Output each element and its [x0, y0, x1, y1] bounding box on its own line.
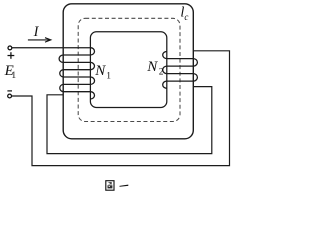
- terminal - (bottom circle): [8, 94, 12, 98]
- terminal + (top circle): [8, 46, 12, 50]
- winding N2 left-side loops: [163, 52, 167, 89]
- current arrow I: [28, 38, 51, 42]
- label +: [8, 52, 15, 59]
- winding N1 right-side loops: [90, 48, 94, 99]
- label minus: [7, 90, 12, 91]
- svg-text:2: 2: [159, 67, 164, 77]
- winding N2 crossings g1..g4: [167, 59, 194, 82]
- wire: + terminal to N1 top (h1): [12, 47, 91, 49]
- winding N2 right-side loops: [193, 59, 197, 82]
- svg-text:1: 1: [106, 71, 111, 81]
- svg-text:N: N: [94, 63, 106, 79]
- wire: N1 bottom exit, left then down then bottom run to right: [47, 87, 212, 154]
- caption 一: [119, 185, 128, 187]
- core inner window edge: [90, 32, 166, 108]
- winding N1 left-side loops: [59, 55, 63, 92]
- svg-text:1: 1: [11, 71, 16, 81]
- core outer edge: [63, 4, 193, 139]
- winding N1 crossings h2..h7: [63, 55, 90, 92]
- svg-text:I: I: [33, 24, 40, 40]
- mean magnetic path l_c (dashed): [78, 18, 180, 121]
- caption 图: [106, 181, 114, 191]
- wire: - terminal loop, outer run to N2 top exit: [12, 51, 230, 166]
- svg-text:N: N: [146, 59, 158, 75]
- svg-text:c: c: [184, 12, 188, 22]
